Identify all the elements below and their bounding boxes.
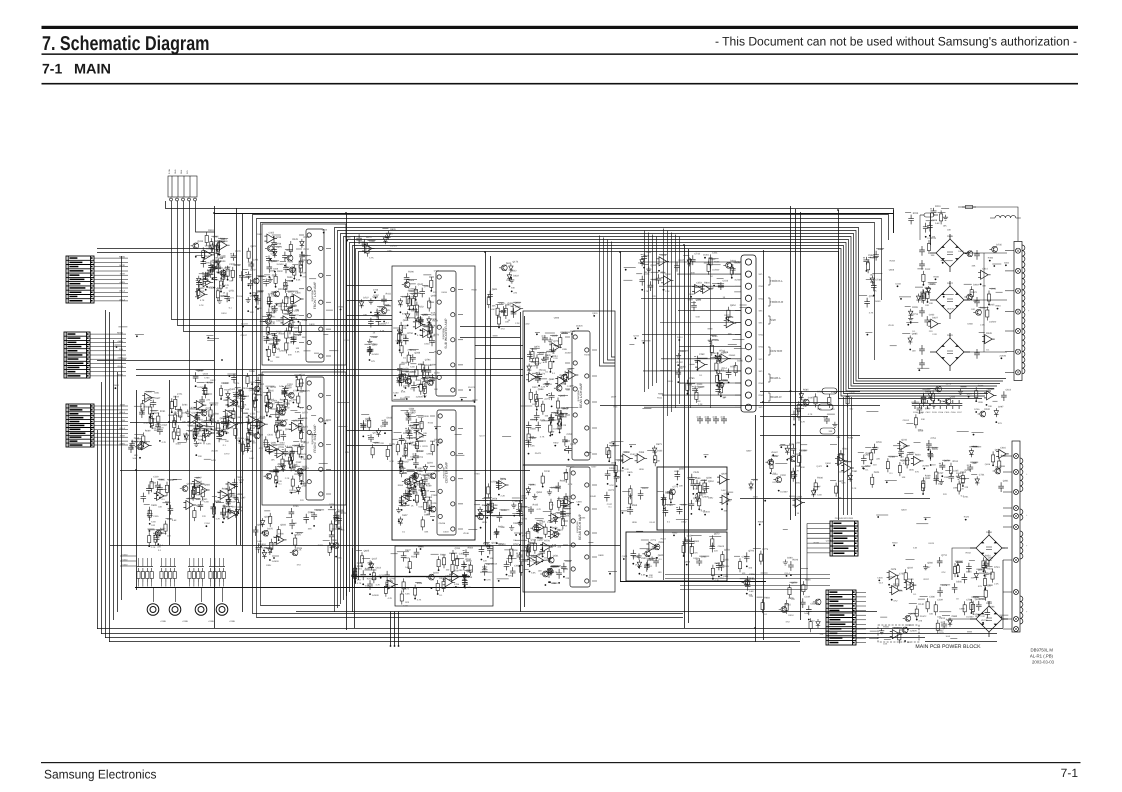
wire [301, 255, 311, 257]
svg-text:4.7K: 4.7K [536, 508, 541, 511]
capacitor C721 [924, 316, 930, 326]
wire [918, 598, 925, 600]
resistor R298 [430, 277, 433, 291]
junction [519, 565, 521, 567]
ground [983, 571, 988, 577]
svg-text:R350: R350 [894, 627, 900, 630]
resistor R359 [400, 463, 403, 477]
svg-text:C753: C753 [899, 573, 905, 576]
op-amp U192 [202, 429, 215, 438]
wire [135, 587, 520, 589]
svg-text:C455: C455 [723, 558, 729, 561]
capacitor C456 [534, 411, 540, 421]
op-amp U510 [226, 510, 239, 519]
wire [347, 240, 995, 597]
junction [213, 287, 215, 289]
wire [551, 565, 561, 567]
ground [783, 560, 788, 566]
wire [257, 219, 882, 618]
junction [498, 580, 500, 582]
resistor R253 [265, 402, 268, 416]
junction [826, 465, 828, 467]
junction [646, 575, 648, 577]
amplifier IC IC106 [563, 467, 597, 587]
wire [291, 419, 297, 421]
wire [1004, 330, 1006, 332]
junction [559, 432, 561, 434]
junction [297, 406, 299, 408]
junction [267, 331, 269, 333]
junction [770, 472, 772, 474]
block muting enclosure [395, 546, 493, 606]
transistor Q898 [218, 270, 226, 276]
junction [269, 416, 271, 418]
svg-text:5.6K: 5.6K [296, 279, 301, 282]
svg-text:C546: C546 [417, 450, 423, 453]
svg-text:C688: C688 [371, 336, 377, 339]
wire [979, 572, 985, 574]
diode D146 [267, 313, 271, 322]
capacitor C422 [549, 414, 555, 424]
svg-text:Q193: Q193 [427, 461, 433, 464]
svg-text:Q826: Q826 [390, 228, 396, 231]
svg-text:C345: C345 [530, 419, 536, 422]
resistor R743 [922, 393, 925, 407]
svg-text:D727: D727 [566, 495, 572, 498]
svg-text:R804: R804 [704, 282, 710, 285]
svg-text:R908: R908 [401, 325, 407, 328]
junction [227, 404, 229, 406]
junction [400, 311, 402, 313]
svg-text:GND: GND [759, 334, 764, 337]
svg-text:C690: C690 [396, 339, 402, 342]
wire [515, 539, 527, 541]
resistor R370 [399, 457, 402, 471]
svg-text:4.7K: 4.7K [648, 576, 653, 579]
wire [814, 485, 820, 487]
op-amp U702 [835, 456, 848, 465]
capacitor C279 [404, 273, 410, 283]
svg-text:D462: D462 [411, 488, 417, 491]
wire [1002, 560, 1004, 628]
junction [276, 304, 278, 306]
transistor Q249 [277, 409, 285, 415]
resistor R570 [192, 487, 195, 501]
svg-text:R523: R523 [971, 291, 977, 294]
svg-text:ZD123: ZD123 [468, 386, 475, 389]
diode D232 [280, 405, 284, 414]
svg-text:C892: C892 [521, 495, 527, 498]
svg-text:D963: D963 [427, 496, 433, 499]
junction [289, 454, 291, 456]
svg-text:Q810: Q810 [515, 301, 521, 304]
wire [407, 469, 415, 471]
junction [704, 257, 706, 259]
resistor R851 [734, 362, 737, 376]
wire [656, 237, 658, 384]
junction [677, 381, 679, 383]
svg-text:C941: C941 [302, 417, 308, 420]
svg-text:ZD133: ZD133 [241, 323, 248, 326]
svg-text:Q889: Q889 [959, 482, 965, 485]
junction [683, 244, 685, 246]
wire [223, 558, 225, 567]
svg-text:Q494: Q494 [512, 500, 518, 503]
svg-text:Q383: Q383 [374, 442, 380, 445]
svg-text:D518: D518 [177, 409, 183, 412]
junction [223, 518, 225, 520]
junction [178, 438, 180, 440]
svg-text:ZD159: ZD159 [236, 295, 243, 298]
amplifier IC IC105 [565, 331, 597, 460]
header top bar [42, 26, 1079, 29]
wire [543, 510, 551, 512]
wire [529, 361, 539, 363]
wire [760, 416, 828, 418]
capacitor C546 [141, 493, 147, 503]
electrolytic capacitor C461 [548, 568, 554, 576]
svg-text:R508: R508 [934, 275, 940, 278]
wire [193, 582, 195, 587]
resistor R819 [926, 598, 929, 612]
op-amp U835 [718, 354, 731, 363]
capacitor C337 [426, 505, 432, 515]
svg-text:R831: R831 [525, 532, 531, 535]
electrolytic capacitor C205 [233, 392, 239, 400]
op-amp U852 [700, 284, 713, 293]
svg-text:D385: D385 [284, 297, 290, 300]
svg-text:STBY: STBY [120, 435, 126, 438]
capacitor C571 [253, 526, 259, 536]
svg-text:Q834: Q834 [280, 523, 286, 526]
capacitor C293 [418, 316, 424, 326]
transistor Q775 [993, 468, 1001, 474]
wire [519, 560, 528, 562]
junction [907, 324, 909, 326]
wire [373, 441, 379, 443]
svg-text:C292: C292 [431, 314, 437, 317]
wire [964, 351, 1007, 353]
svg-text:R683: R683 [764, 596, 770, 599]
junction [149, 523, 151, 525]
wire [700, 480, 706, 482]
fuse F801 [920, 213, 938, 217]
capacitor C555 [168, 505, 174, 515]
svg-text:2.2K: 2.2K [338, 528, 343, 531]
inter-stage parts [360, 415, 396, 463]
svg-text:Q440: Q440 [679, 468, 685, 471]
svg-text:Q764: Q764 [216, 501, 222, 504]
svg-text:33K: 33K [302, 336, 306, 339]
wire [475, 515, 523, 517]
junction [553, 361, 555, 363]
wire [740, 498, 930, 500]
transistor Q264 [295, 468, 303, 474]
diode D717 [908, 336, 912, 345]
svg-text:D746: D746 [199, 409, 205, 412]
wire [275, 453, 283, 455]
svg-text:Q927: Q927 [967, 393, 973, 396]
capacitor C248 [273, 466, 279, 476]
resistor R801 [962, 205, 976, 208]
ground [299, 444, 304, 450]
junction [691, 513, 693, 515]
svg-text:Q288: Q288 [308, 511, 314, 514]
junction [648, 555, 650, 557]
wire [922, 388, 930, 390]
svg-text:D275: D275 [267, 527, 273, 530]
capacitor C438 [562, 436, 568, 446]
op-amp U560 [154, 491, 167, 500]
junction [406, 398, 408, 400]
wire [218, 240, 228, 242]
svg-text:Q629: Q629 [721, 472, 727, 475]
resistor R809 [970, 599, 973, 613]
wire [838, 453, 844, 455]
transistor Q133 [251, 278, 259, 284]
svg-text:4.7K: 4.7K [486, 579, 491, 582]
transistor Q475 [546, 557, 554, 563]
junction [239, 440, 241, 442]
wire [423, 326, 429, 328]
svg-text:R562: R562 [468, 547, 474, 550]
svg-text:D133: D133 [702, 479, 708, 482]
electrolytic capacitor C115 [248, 261, 254, 269]
wire [216, 502, 224, 504]
wire [680, 504, 688, 506]
capacitor C336 [413, 459, 419, 469]
resistor R789 [991, 569, 994, 583]
wire [964, 283, 972, 285]
wire [284, 305, 296, 307]
capacitor C173 [282, 252, 288, 262]
wire [647, 557, 655, 559]
svg-text:ZD475: ZD475 [947, 308, 954, 311]
diode D724 [926, 286, 930, 295]
wire [408, 416, 416, 418]
resistor R536 [173, 417, 176, 431]
wire [415, 482, 423, 484]
resistor R304 [415, 366, 418, 380]
ground [292, 464, 297, 470]
junction [726, 503, 728, 505]
svg-text:1U/50V: 1U/50V [272, 560, 280, 563]
wire [914, 442, 921, 444]
op-amp U411 [511, 304, 523, 313]
svg-text:Q489: Q489 [338, 509, 344, 512]
wire [117, 372, 119, 612]
op-amp U617 [443, 578, 456, 587]
wire [604, 238, 616, 364]
wire [223, 505, 233, 507]
wire [902, 333, 910, 335]
junction [409, 443, 411, 445]
front-L input stage [191, 229, 265, 315]
svg-text:Q797: Q797 [987, 572, 993, 575]
wire [940, 584, 950, 586]
svg-text:47U: 47U [941, 571, 945, 574]
svg-text:R793: R793 [474, 472, 480, 475]
ground [547, 489, 552, 495]
svg-text:2.2K: 2.2K [244, 412, 249, 415]
svg-text:Q117: Q117 [372, 558, 378, 561]
wire [359, 241, 365, 243]
wire [760, 402, 830, 404]
capacitor C790 [966, 563, 972, 573]
transistor Q315 [402, 282, 410, 288]
wire [499, 311, 505, 313]
capacitor C594 [303, 514, 309, 524]
capacitor C879 [927, 222, 933, 232]
svg-text:C492: C492 [223, 382, 229, 385]
svg-text:10K: 10K [902, 476, 906, 479]
wire [292, 290, 298, 292]
svg-text:Q594: Q594 [708, 480, 714, 483]
wire [504, 549, 510, 551]
junction [538, 385, 540, 387]
wire [382, 228, 388, 230]
electrolytic capacitor C914 [368, 434, 374, 442]
wire [288, 452, 295, 454]
svg-text:C405: C405 [953, 470, 959, 473]
svg-text:D197: D197 [808, 396, 814, 399]
capacitor C217 [245, 443, 251, 453]
resistor R400 [518, 500, 521, 514]
wire [710, 335, 716, 337]
svg-text:D195: D195 [737, 359, 743, 362]
svg-text:ZD48: ZD48 [463, 532, 469, 535]
svg-text:Q816: Q816 [985, 463, 991, 466]
wire [197, 582, 199, 587]
svg-text:Q354: Q354 [422, 314, 428, 317]
svg-text:R291: R291 [160, 410, 166, 413]
wire [551, 566, 559, 568]
transistor Q488 [545, 568, 553, 574]
capacitor C469 [546, 568, 552, 578]
wire [314, 352, 319, 354]
resistor R504 [142, 433, 145, 447]
svg-text:C323: C323 [192, 412, 198, 415]
capacitor C340 [407, 430, 413, 440]
wire [346, 430, 392, 432]
junction [206, 430, 208, 432]
capacitor C332 [376, 316, 382, 326]
capacitor C381 [488, 507, 494, 517]
amplifier IC IC102 [299, 377, 331, 500]
electrolytic capacitor C494 [528, 506, 534, 514]
junction [220, 398, 222, 400]
junction [362, 436, 364, 438]
wire [384, 305, 390, 307]
svg-text:Q164: Q164 [530, 483, 536, 486]
capacitor C654 [689, 474, 695, 484]
resistor R375 [423, 499, 426, 513]
svg-text:Q532: Q532 [279, 404, 285, 407]
transistor Q874 [153, 530, 161, 536]
wire [286, 516, 292, 518]
svg-text:R201: R201 [278, 288, 284, 291]
svg-text:10K: 10K [245, 408, 249, 411]
wire [295, 411, 301, 413]
secondary rectifier parts [858, 437, 1009, 497]
svg-text:Q646: Q646 [197, 369, 203, 372]
svg-text:Q712: Q712 [941, 554, 947, 557]
junction [267, 337, 269, 339]
svg-text:C660: C660 [787, 557, 793, 560]
junction [687, 393, 689, 395]
resistor R798 [910, 579, 913, 593]
svg-text:10K: 10K [167, 535, 171, 538]
svg-text:R363: R363 [403, 340, 409, 343]
resistor R237 [276, 427, 279, 441]
junction [557, 423, 559, 425]
svg-text:Q947: Q947 [925, 566, 931, 569]
junction [398, 645, 400, 647]
ground [412, 474, 417, 480]
wire [541, 420, 550, 422]
junction [202, 260, 204, 262]
svg-text:D144: D144 [650, 521, 656, 524]
wire [364, 343, 370, 345]
junction [301, 483, 303, 485]
svg-text:R857: R857 [544, 545, 550, 548]
op-amp U567 [218, 490, 231, 499]
op-amp U366 [414, 431, 427, 440]
junction [415, 472, 417, 474]
junction [746, 593, 748, 595]
svg-text:100U: 100U [724, 565, 730, 568]
resistor R273 [276, 407, 279, 421]
junction [217, 254, 219, 256]
wire [535, 331, 540, 333]
svg-text:R752: R752 [226, 502, 232, 505]
wire [972, 432, 984, 434]
wire [905, 306, 911, 308]
svg-text:Q654: Q654 [730, 304, 736, 307]
svg-text:C734: C734 [979, 474, 985, 477]
svg-text:C582: C582 [810, 603, 816, 606]
wire [616, 459, 624, 461]
junction [415, 466, 417, 468]
junction [276, 482, 278, 484]
resistor R807 [956, 562, 959, 576]
wire [964, 252, 1007, 254]
svg-text:100U: 100U [304, 458, 310, 461]
electrolytic capacitor C201 [247, 427, 253, 435]
resistor [164, 568, 167, 582]
junction [721, 574, 723, 576]
junction [413, 499, 415, 501]
capacitor C750 [917, 404, 923, 414]
capacitor C905 [356, 234, 362, 244]
resistor R537 [237, 499, 240, 513]
wire [309, 278, 316, 280]
wire [151, 582, 153, 587]
svg-text:R673: R673 [656, 443, 662, 446]
capacitor C872 [129, 440, 135, 450]
junction [437, 444, 439, 446]
junction [284, 400, 286, 402]
junction [877, 516, 879, 518]
resistor R235 [297, 393, 300, 407]
svg-text:C247: C247 [607, 503, 613, 506]
junction [223, 285, 225, 287]
svg-text:5.6K: 5.6K [935, 222, 940, 225]
wire [158, 478, 164, 480]
capacitor C674 [682, 537, 688, 547]
wire [421, 313, 431, 315]
resistor R791 [982, 557, 985, 571]
